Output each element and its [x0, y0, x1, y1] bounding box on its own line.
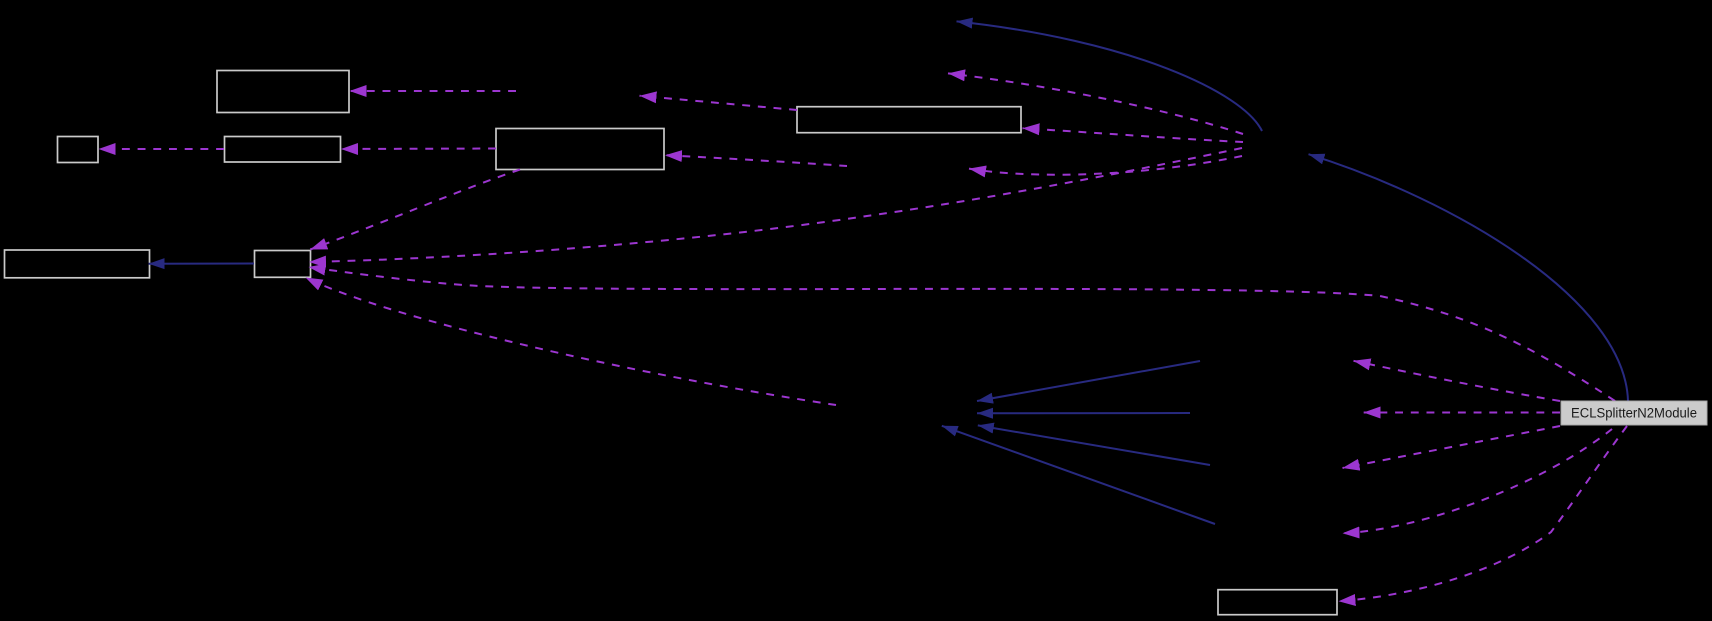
edge dashed hub to N2 [948, 73, 1243, 134]
edge dashed grey to H [1339, 426, 1628, 601]
edge dashed hub to G [309, 148, 1242, 262]
node box H (empty bottom right) [1218, 590, 1337, 615]
node ECLSplitterN2Module (grey filled) [1561, 401, 1707, 425]
edge dashed grey to node467 [1343, 426, 1561, 468]
node box F (empty) [5, 250, 150, 278]
node box A (empty) [217, 71, 349, 113]
edge dashed grey to node360 [1354, 361, 1561, 401]
svg-text:ECLSplitterN2Module: ECLSplitterN2Module [1571, 406, 1697, 421]
node box B (empty small) [58, 137, 99, 163]
edge dashed hub to N4 [969, 156, 1242, 175]
edge dashed N5 to G [306, 278, 837, 406]
edge dashed D to G [310, 170, 520, 250]
edge solid blue r1 [977, 361, 1200, 401]
edge dashed grey to node412 [1364, 412, 1561, 414]
edge dashed D to C [341, 148, 496, 151]
edge solid blue grey to hub arrow [1309, 154, 1629, 401]
edge dashed N4 to D [665, 155, 847, 166]
edge dashed grey to node533 [1343, 429, 1613, 533]
edge solid blue r4 [942, 426, 1215, 524]
edge dashed hub to E [1023, 128, 1244, 142]
node box D (empty) [496, 129, 664, 170]
edge dashed grey to G long [309, 267, 1616, 401]
edge dashed N1 to A [350, 90, 517, 92]
node box E (empty wide) [797, 107, 1021, 133]
edge solid blue r3 [978, 425, 1210, 465]
edge solid blue G to F [149, 263, 255, 265]
edge dashed C to B [99, 148, 225, 150]
edge solid blue r2 [977, 412, 1190, 414]
node box G (empty small hub) [255, 251, 311, 278]
edge solid blue hub to top arrow [957, 21, 1263, 131]
edge dashed E to N1 [640, 96, 798, 110]
node box C (empty) [225, 137, 341, 163]
